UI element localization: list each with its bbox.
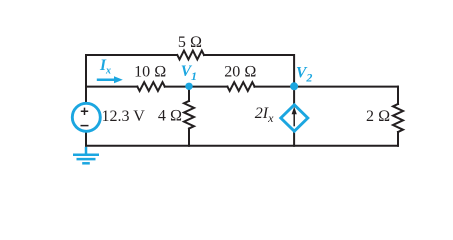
wire top branch left segment <box>86 55 177 87</box>
svg-text:2Ix: 2Ix <box>255 105 274 125</box>
plus sign <box>81 108 88 115</box>
svg-text:20 Ω: 20 Ω <box>224 64 256 81</box>
svg-text:2 Ω: 2 Ω <box>366 108 390 125</box>
svg-text:V1: V1 <box>181 63 197 83</box>
resistor R 20ohm zigzag <box>227 82 254 91</box>
dependent current source 2Ix diamond <box>281 105 308 131</box>
ground <box>73 147 99 163</box>
wire main row middle <box>165 86 228 88</box>
node V1 dot <box>185 83 192 90</box>
svg-text:4 Ω: 4 Ω <box>158 108 182 125</box>
wire top branch right segment <box>204 55 294 87</box>
wire source bottom lead <box>85 131 87 146</box>
wire V2 branch bottom lead <box>293 131 295 146</box>
minus sign <box>81 125 89 127</box>
wire V2 branch top lead <box>293 87 295 105</box>
resistor R 2ohm zigzag vertical <box>393 104 403 132</box>
resistor R 10ohm zigzag <box>137 82 165 91</box>
wire bottom <box>86 145 398 147</box>
svg-text:10 Ω: 10 Ω <box>134 64 166 81</box>
wire right bottom <box>397 132 399 146</box>
resistor R 4ohm zigzag vertical <box>184 101 194 129</box>
wire V1 branch bottom lead <box>188 129 190 146</box>
wire main row left <box>86 86 137 88</box>
resistor R 5ohm zigzag <box>177 51 204 60</box>
svg-text:Ix: Ix <box>99 57 111 76</box>
voltage source V 12.3V circle <box>72 103 100 131</box>
svg-text:V2: V2 <box>296 65 312 85</box>
current arrow Ix <box>97 76 123 83</box>
svg-text:5 Ω: 5 Ω <box>178 34 202 51</box>
wire source top lead <box>85 87 87 104</box>
wire right side down <box>397 87 399 104</box>
wire V1 branch top lead <box>188 87 190 101</box>
arrow inside diamond <box>292 107 297 127</box>
wire main row right <box>254 86 398 88</box>
node V2 dot <box>290 82 298 90</box>
svg-text:12.3 V: 12.3 V <box>102 108 146 125</box>
